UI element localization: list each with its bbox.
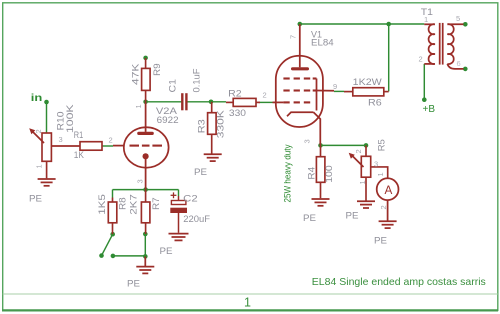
wire V1 pin9 to R6 — [334, 90, 344, 92]
ground PE under ammeter — [379, 221, 397, 228]
svg-text:PE: PE — [127, 279, 140, 290]
svg-text:2K7: 2K7 — [129, 194, 140, 215]
node T1 pin6 endpoint — [463, 67, 468, 72]
node switch contact right — [111, 254, 116, 259]
svg-text:3: 3 — [59, 135, 63, 144]
svg-text:2: 2 — [109, 135, 113, 144]
capacitor C1 — [182, 93, 186, 110]
svg-text:5: 5 — [456, 14, 460, 23]
primary coil — [429, 24, 435, 64]
resistor R7 — [141, 190, 150, 234]
frame bottom border (thicker) — [2, 309, 498, 311]
grid dashes — [130, 145, 163, 147]
wire down to C2 — [178, 190, 180, 196]
svg-text:PE: PE — [29, 194, 42, 205]
node in — [44, 100, 49, 105]
svg-text:6: 6 — [457, 59, 461, 68]
pin numbers (light gray) — [34, 14, 461, 210]
svg-text:1K5: 1K5 — [97, 194, 108, 215]
resistor R6 — [344, 88, 389, 96]
svg-text:R3: R3 — [197, 119, 208, 133]
svg-text:R9: R9 — [152, 63, 163, 76]
svg-text:C1: C1 — [168, 79, 179, 92]
net label texts (green) — [31, 93, 436, 203]
tube V1 (EL84 pentode) — [273, 24, 335, 145]
frame title strip line — [3, 293, 498, 295]
cathode lead — [145, 156, 147, 189]
svg-text:1: 1 — [358, 180, 367, 184]
ground PE under R4 — [312, 199, 330, 206]
cathode — [287, 112, 314, 116]
wire R2 to V1 grid — [259, 101, 273, 103]
ground PE under R3 — [204, 154, 222, 161]
node R7 bottom junction — [143, 232, 148, 237]
svg-text:330K: 330K — [216, 109, 227, 138]
cathode dot V2A — [143, 153, 149, 159]
resistor R1 — [80, 142, 102, 151]
svg-text:+B: +B — [423, 104, 436, 115]
ground PE under R5 — [357, 201, 375, 208]
svg-text:R5: R5 — [377, 139, 388, 151]
anode lead — [145, 102, 147, 132]
svg-text:2: 2 — [379, 205, 388, 209]
secondary coil — [447, 24, 453, 64]
ammeter A1 — [377, 178, 399, 220]
grid g2 dashes — [283, 89, 316, 91]
capacitor C2 — [171, 192, 187, 232]
grid g1 lead — [273, 101, 284, 103]
svg-text:PE: PE — [374, 236, 387, 247]
wire anode junction to C1 — [146, 101, 182, 103]
svg-text:6922: 6922 — [157, 115, 179, 126]
cathode exit lead — [314, 112, 321, 145]
svg-text:C2: C2 — [183, 193, 198, 204]
ground PE under R7 — [136, 256, 154, 273]
grid g3 dashes — [283, 77, 316, 79]
node C1/R3 junction — [209, 100, 214, 105]
svg-text:7: 7 — [289, 35, 298, 39]
transformer T1 — [424, 23, 463, 69]
node V2A cathode junction — [143, 187, 148, 192]
tube V2A (6922 triode) — [113, 102, 169, 190]
svg-text:R6: R6 — [368, 98, 382, 109]
svg-text:3: 3 — [374, 159, 378, 168]
svg-text:R4: R4 — [307, 167, 318, 180]
node switch lever end — [99, 253, 104, 258]
pin 5 lead — [447, 23, 463, 25]
svg-text:1K2W: 1K2W — [353, 77, 382, 88]
wire T1 pin2 to +B — [423, 64, 425, 100]
potentiometer R10 — [33, 132, 81, 179]
wire B+ rail — [300, 23, 425, 25]
svg-text:220uF: 220uF — [183, 214, 210, 225]
resistor R3 — [208, 102, 217, 154]
node switch contact top — [110, 232, 115, 237]
svg-text:330: 330 — [229, 108, 246, 119]
svg-text:PE: PE — [303, 213, 316, 224]
pin 6 lead — [447, 64, 463, 69]
wire switch bottom — [113, 255, 145, 257]
svg-text:A: A — [385, 184, 393, 197]
node rail/R6 junction — [386, 22, 391, 27]
svg-text:0.1uF: 0.1uF — [192, 68, 203, 92]
svg-text:100K: 100K — [65, 104, 76, 133]
svg-text:25W heavy duty: 25W heavy duty — [282, 144, 292, 202]
grid g1 dashes — [283, 101, 310, 103]
svg-text:R7: R7 — [151, 197, 162, 210]
svg-text:9: 9 — [333, 82, 337, 91]
svg-text:PE: PE — [194, 167, 207, 178]
svg-text:1K: 1K — [74, 150, 85, 161]
node V1 cathode junction — [318, 143, 323, 148]
anode plate — [139, 132, 152, 135]
svg-text:2: 2 — [419, 55, 423, 64]
grid g2 lead — [317, 90, 335, 92]
resistor R2 — [226, 98, 260, 106]
node R7 ground junction — [143, 254, 148, 259]
svg-text:PE: PE — [160, 246, 173, 257]
svg-text:EL84: EL84 — [311, 38, 334, 49]
pin 2 lead — [424, 63, 435, 65]
wire C1 to R2 — [188, 101, 227, 103]
g3 internal connection — [316, 79, 318, 111]
svg-text:R2: R2 — [228, 89, 242, 100]
svg-text:PE: PE — [346, 211, 359, 222]
wire R7 bottom vertical — [144, 234, 146, 256]
wire V2A cathode horizontal — [113, 189, 179, 191]
wire R6 right vertical — [388, 24, 390, 91]
node R9 top — [143, 56, 148, 61]
core lines — [439, 23, 441, 65]
plus sign — [171, 194, 177, 196]
potentiometer R5 — [352, 145, 388, 200]
node T1 pin5 endpoint — [463, 22, 468, 27]
svg-text:in: in — [31, 93, 43, 104]
pin 1 lead — [424, 23, 435, 25]
node R5 top junction — [364, 143, 369, 148]
node V1 anode rail — [298, 22, 303, 27]
wire in stub — [46, 102, 48, 133]
anode plate — [293, 67, 308, 70]
resistor R8 — [108, 198, 117, 235]
node +B endpoint — [422, 97, 427, 102]
svg-text:3: 3 — [303, 139, 312, 143]
svg-text:R1: R1 — [74, 130, 83, 141]
ground PE under C2 — [169, 234, 189, 241]
resistor R9 — [142, 58, 151, 102]
svg-text:1: 1 — [134, 104, 143, 108]
svg-text:1: 1 — [424, 15, 428, 24]
svg-text:1: 1 — [244, 296, 251, 310]
svg-text:R8: R8 — [118, 197, 129, 210]
wire down to R8 — [112, 190, 114, 198]
resistor R4 — [316, 145, 325, 198]
svg-text:1: 1 — [376, 172, 385, 176]
wire switch lever — [102, 234, 113, 255]
svg-text:2: 2 — [263, 91, 267, 100]
ground PE under R10 — [38, 179, 56, 186]
wire R1 to V2A grid — [102, 145, 113, 147]
svg-text:3: 3 — [136, 179, 145, 183]
svg-text:47K: 47K — [131, 63, 142, 85]
svg-text:2: 2 — [34, 129, 43, 133]
grid lead — [113, 145, 124, 147]
svg-text:1: 1 — [35, 164, 44, 168]
svg-text:EL84 Single ended amp costas s: EL84 Single ended amp costas sarris — [312, 277, 486, 288]
wire V1 cathode to R5 — [321, 144, 367, 146]
anode lead — [299, 24, 301, 67]
svg-text:100: 100 — [324, 165, 335, 183]
svg-text:2: 2 — [354, 149, 363, 153]
node anode junction V2A — [143, 100, 148, 105]
